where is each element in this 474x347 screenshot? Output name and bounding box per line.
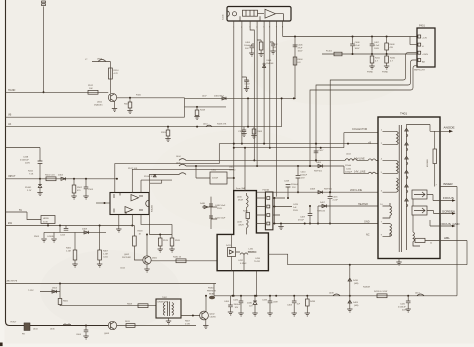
FOCUS_GND out	[430, 225, 452, 227]
svg-text:10K: 10K	[89, 88, 93, 90]
wire branch to VA	[248, 98, 282, 126]
svg-text:4.7K: 4.7K	[114, 73, 119, 75]
wire C406 branch	[294, 37, 296, 99]
svg-text:C418: C418	[284, 181, 290, 183]
internal resistor	[433, 149, 437, 164]
inductor L404	[345, 159, 357, 161]
wire Q501 collector	[117, 97, 185, 99]
resistor R605	[59, 284, 61, 299]
resistor R608	[138, 304, 148, 308]
diode D410	[349, 265, 351, 296]
svg-text:C416: C416	[333, 197, 339, 199]
svg-text:JR08: JR08	[97, 59, 103, 61]
zener ZD401	[39, 179, 41, 185]
resistor R410 + ground	[386, 54, 388, 56]
wire pin3 jog + capacitor C404	[250, 25, 254, 161]
svg-text:48uH: 48uH	[238, 200, 243, 202]
svg-text:R514: R514	[114, 70, 120, 72]
transistor Q603	[108, 321, 116, 329]
capacitor C403	[293, 296, 295, 301]
ferrite bead FB601	[24, 323, 30, 331]
diode D406	[318, 164, 323, 167]
svg-text:R404: R404	[298, 59, 304, 61]
bottom-left corner mark	[0, 343, 3, 347]
resistor R518	[133, 226, 135, 237]
wire 14V rail	[186, 159, 345, 161]
svg-text:EW: EW	[8, 222, 13, 225]
svg-text:Q501: Q501	[97, 102, 103, 104]
svg-text:R438: R438	[310, 301, 316, 303]
svg-text:C440 56uF: C440 56uF	[215, 205, 226, 207]
svg-text:Q602: Q602	[124, 254, 130, 256]
svg-text:C419: C419	[293, 204, 299, 206]
svg-text:D409: D409	[353, 302, 359, 304]
svg-text:.0039: .0039	[273, 302, 279, 304]
svg-text:R324: R324	[161, 132, 167, 134]
resistor R404	[293, 57, 297, 65]
svg-text:R519: R519	[163, 240, 169, 242]
wire VB riser	[184, 98, 186, 117]
svg-text:HOUT: HOUT	[11, 322, 18, 324]
svg-text:ABL/SH.FB: ABL/SH.FB	[7, 280, 18, 283]
svg-text:TVR10G: TVR10G	[317, 211, 325, 213]
svg-text:250V: 250V	[293, 210, 298, 212]
resistor R406 + ground	[99, 226, 101, 251]
svg-text:0.1uF: 0.1uF	[355, 45, 361, 47]
secondary diode chain	[406, 128, 408, 250]
wire pin5 long + diode D401	[263, 25, 265, 144]
ground Q402 emitter	[205, 320, 207, 326]
svg-text:C411: C411	[103, 257, 109, 259]
svg-text:C410: C410	[301, 172, 307, 174]
wire 14V rail2	[186, 166, 378, 174]
svg-text:RGP10J: RGP10J	[314, 171, 322, 173]
svg-text:0.1uF: 0.1uF	[374, 45, 380, 47]
svg-text:14V-LINE: 14V-LINE	[354, 157, 365, 160]
svg-text:R408: R408	[390, 44, 396, 46]
svg-text:C413: C413	[60, 235, 66, 237]
wire EW rail	[6, 225, 135, 227]
svg-text:R440 1K: R440 1K	[173, 257, 182, 259]
svg-text:R605: R605	[63, 301, 69, 303]
svg-text:+B: +B	[368, 142, 371, 145]
svg-text:D408: D408	[82, 229, 88, 231]
svg-text:0.022: 0.022	[245, 84, 251, 86]
wire P401 pin2 stub	[410, 37, 418, 45]
diode D604	[40, 291, 60, 293]
bottom winding	[413, 232, 420, 246]
svg-text:5L3K: 5L3K	[43, 222, 48, 224]
pin stubs and numbers	[234, 21, 283, 25]
wire T402 to Q402	[181, 315, 200, 317]
resistor R411 + ground	[371, 53, 373, 55]
svg-text:470uF: 470uF	[298, 220, 305, 222]
wire HEATER rail	[318, 206, 378, 224]
svg-text:F006: F006	[136, 95, 142, 97]
svg-text:D440: D440	[200, 203, 206, 205]
diode D411	[228, 248, 236, 257]
svg-text:HR5B: HR5B	[43, 218, 49, 220]
resistor R514	[109, 68, 113, 79]
wire sub-run	[185, 106, 227, 108]
resistor R438	[306, 296, 308, 299]
svg-text:200V-LINE: 200V-LINE	[350, 189, 362, 192]
capacitor C416	[329, 192, 331, 223]
svg-text:FOCUS: FOCUS	[443, 196, 454, 200]
wire P401 drop 3	[310, 66, 418, 166]
svg-text:120uH: 120uH	[345, 165, 352, 167]
wire step to B+ sense	[268, 254, 467, 265]
wire P403A stubs right	[273, 198, 292, 224]
wire +B rail	[219, 143, 378, 145]
svg-text:D411: D411	[226, 245, 232, 247]
wire opamp bottom pins	[118, 215, 120, 230]
svg-text:C503: C503	[88, 189, 94, 191]
svg-text:R512: R512	[88, 85, 94, 87]
resistor R611	[126, 324, 135, 328]
svg-text:2200uF: 2200uF	[300, 175, 308, 177]
svg-text:0.39uF: 0.39uF	[240, 263, 247, 265]
svg-text:C604: C604	[76, 334, 82, 336]
wire net1 (to bundle)	[115, 164, 220, 193]
svg-text:50V: 50V	[246, 87, 250, 89]
capacitor C410	[297, 166, 299, 192]
wire opamp left input	[96, 202, 110, 204]
svg-text:C406: C406	[298, 45, 304, 47]
svg-text:D605: D605	[152, 258, 158, 260]
wire HOUT continue	[117, 325, 196, 327]
wire ABL bottom rail	[214, 295, 457, 297]
svg-text:2SA1015: 2SA1015	[94, 104, 103, 107]
svg-text:C41B: C41B	[23, 157, 29, 159]
svg-text:2.2uF: 2.2uF	[333, 200, 339, 202]
svg-text:R501 5.1K: R501 5.1K	[45, 175, 55, 177]
transistor Q501	[108, 93, 116, 101]
wire net2 (to bundle)	[132, 169, 234, 192]
svg-text:ZD401: ZD401	[25, 187, 32, 189]
svg-text:100V: 100V	[374, 48, 379, 50]
svg-text:50V: 50V	[245, 48, 249, 50]
svg-text:PGND: PGND	[382, 72, 389, 74]
svg-text:C441 56uF: C441 56uF	[215, 218, 226, 220]
wire pin1	[233, 25, 235, 191]
svg-text:T-12V: T-12V	[28, 290, 34, 292]
wire H line to P401	[322, 53, 418, 55]
pin stubs inside	[383, 131, 397, 236]
FOCUS out	[427, 195, 452, 201]
svg-text:SMPS-CRT: SMPS-CRT	[414, 70, 426, 72]
diode D408b	[318, 191, 323, 194]
svg-text:12V: 12V	[249, 306, 253, 308]
svg-text:COLLECTOR: COLLECTOR	[352, 128, 367, 131]
core	[399, 125, 401, 252]
wire HB rail	[6, 178, 117, 180]
wire D405 run	[185, 97, 297, 99]
SCREEN out	[427, 211, 452, 214]
svg-text:R418: R418	[200, 110, 206, 112]
svg-text:R440M: R440M	[363, 287, 370, 289]
svg-text:200uH: 200uH	[212, 178, 219, 180]
svg-text:D410: D410	[353, 280, 359, 282]
svg-text:100V: 100V	[298, 51, 303, 53]
svg-text:C426: C426	[233, 300, 239, 302]
svg-text:PGND: PGND	[367, 72, 374, 74]
svg-text:C410B: C410B	[47, 236, 54, 238]
svg-text:400uH: 400uH	[248, 252, 255, 254]
wire pin7 long	[276, 25, 278, 197]
svg-text:C415: C415	[346, 169, 352, 171]
svg-text:D407: D407	[320, 202, 326, 204]
wire pin8 to P401 feed	[283, 25, 418, 37]
diode D404	[61, 177, 66, 180]
regulator HR5B box	[41, 216, 55, 224]
svg-text:+200V: +200V	[422, 54, 429, 56]
svg-text:T401: T401	[400, 112, 407, 116]
connector stub top (x=43)	[42, 1, 46, 3]
svg-text:ABL: ABL	[444, 236, 450, 240]
wire INNER drop	[456, 187, 458, 296]
resistor R512	[88, 90, 98, 94]
svg-text:C432: C432	[238, 260, 244, 262]
svg-text:HGND: HGND	[8, 89, 16, 92]
svg-text:R328 47K: R328 47K	[217, 124, 227, 126]
diode D440	[202, 206, 211, 208]
zener D430	[254, 296, 256, 301]
svg-text:D406: D406	[316, 162, 322, 164]
svg-text:25V: 25V	[301, 178, 305, 180]
svg-text:+14V: +14V	[422, 38, 428, 40]
svg-text:FL401: FL401	[326, 51, 333, 53]
svg-text:SCREEN: SCREEN	[442, 209, 455, 213]
capacitor C407	[371, 36, 373, 38]
svg-text:0.0056uF: 0.0056uF	[20, 160, 30, 162]
svg-text:200V: 200V	[25, 163, 30, 165]
ground T402	[168, 318, 170, 321]
svg-text:VB: VB	[8, 114, 12, 117]
svg-text:100uF: 100uF	[244, 45, 251, 47]
resistor R520 + ground	[171, 235, 173, 239]
svg-text:ANODE: ANODE	[444, 126, 455, 130]
ground Q602 emitter	[146, 264, 148, 269]
capacitor C604	[85, 325, 87, 327]
svg-text:400V: 400V	[402, 310, 407, 312]
capacitor C413	[65, 226, 67, 229]
svg-text:C402: C402	[273, 44, 279, 46]
capacitor C426	[240, 296, 242, 301]
wire net3 riser	[149, 175, 179, 235]
capacitor C502	[85, 179, 87, 187]
resistor R519 + ground	[159, 235, 161, 239]
svg-text:D401: D401	[267, 60, 273, 62]
capacitor C394	[243, 127, 245, 130]
svg-text:R507: R507	[124, 104, 130, 106]
wire from top connector down	[43, 6, 45, 92]
resistor R418	[196, 107, 198, 110]
capacitor C433	[269, 296, 271, 301]
svg-text:D604: D604	[52, 288, 58, 290]
resistor R405 + ground	[74, 232, 76, 250]
svg-text:D402: D402	[229, 167, 235, 169]
svg-text:(HB): (HB)	[354, 305, 359, 307]
wire C41B top link	[6, 147, 41, 149]
svg-text:5.1V: 5.1V	[27, 190, 32, 192]
svg-text:47uF: 47uF	[298, 48, 303, 50]
svg-text:1000pF: 1000pF	[345, 172, 353, 174]
svg-text:R502: R502	[77, 187, 83, 189]
svg-text:R608: R608	[127, 304, 133, 306]
ground on GND rail	[280, 224, 282, 227]
svg-text:HEATER: HEATER	[358, 203, 368, 206]
wire EW sub-run	[44, 226, 106, 233]
capacitor C440	[211, 197, 217, 229]
inductor L402	[210, 172, 227, 184]
resistor R440 run to center	[151, 260, 217, 262]
transistor Q402	[200, 311, 209, 320]
diode D408	[84, 231, 89, 234]
svg-text:C6090: C6090	[210, 317, 217, 319]
svg-text:100V: 100V	[355, 48, 360, 50]
svg-text:R410: R410	[390, 58, 396, 60]
transistor Q602	[143, 256, 151, 264]
svg-text:C612: C612	[120, 268, 126, 270]
resistor R408	[386, 36, 388, 38]
diode D407	[322, 204, 327, 207]
wire ABL drop	[466, 241, 468, 265]
diode D409	[349, 296, 351, 309]
svg-text:C405: C405	[245, 81, 251, 83]
svg-text:R405: R405	[66, 248, 72, 250]
wire pin2 + capacitor C405	[241, 25, 243, 144]
svg-text:(HB): (HB)	[354, 283, 359, 285]
resistor R501	[46, 177, 56, 181]
svg-text:P403A: P403A	[263, 189, 270, 192]
svg-text:NC: NC	[366, 233, 370, 236]
wire net4 (notch side)	[141, 180, 172, 192]
svg-text:C409: C409	[300, 217, 306, 219]
svg-text:Q603: Q603	[104, 333, 110, 335]
inductor L601	[63, 324, 71, 326]
svg-text:P401: P401	[419, 25, 425, 28]
wire GND rail	[274, 223, 378, 225]
svg-text:C407: C407	[374, 42, 380, 44]
wire jumper run	[92, 62, 110, 94]
wire foot bottom drops	[234, 271, 257, 296]
svg-text:C433: C433	[262, 300, 268, 302]
thick trace (pattern)	[217, 191, 268, 271]
svg-text:C394: C394	[238, 131, 244, 133]
ground	[194, 117, 199, 120]
heater winding	[383, 203, 392, 218]
ground (Q501 emitter)	[114, 102, 116, 109]
svg-text:2SC2482: 2SC2482	[122, 257, 132, 259]
op-amp U401 (IC box top)	[227, 7, 291, 22]
svg-text:R520: R520	[175, 240, 181, 242]
wire 200V rail	[256, 191, 378, 193]
primary winding arcs	[397, 131, 399, 144]
svg-text:RGP10J: RGP10J	[324, 189, 332, 191]
svg-text:D430: D430	[247, 303, 253, 305]
svg-text:.68uH: .68uH	[238, 225, 244, 227]
svg-text:IC401: IC401	[223, 14, 225, 20]
capacitor C41B branch	[39, 148, 41, 179]
focus pot	[412, 190, 427, 199]
svg-text:0.056uF: 0.056uF	[398, 307, 406, 309]
resistor R308	[253, 127, 255, 129]
svg-text:MX0809: MX0809	[427, 158, 429, 167]
op-amp IC402 (KIA358)	[110, 193, 149, 215]
svg-text:C408: C408	[355, 42, 361, 44]
wire rail2	[234, 147, 344, 149]
ANODE out	[407, 125, 450, 132]
wire COLLECTOR	[344, 133, 378, 148]
screen pot	[412, 206, 427, 215]
wire P403A stubs left	[256, 198, 265, 224]
svg-text:C420: C420	[400, 304, 406, 306]
svg-text:7.5K: 7.5K	[29, 174, 34, 176]
wire 12V run	[60, 305, 156, 307]
svg-text:C434: C434	[255, 258, 261, 260]
wire Q402 collector	[205, 296, 207, 312]
svg-text:R411: R411	[375, 58, 381, 60]
svg-text:25V: 25V	[292, 187, 296, 189]
svg-text:INPUT: INPUT	[8, 175, 16, 178]
svg-text:3mm 30A: 3mm 30A	[236, 187, 246, 190]
svg-text:R503: R503	[34, 236, 40, 238]
wire ABL rail	[6, 283, 217, 285]
capacitor C418	[287, 187, 289, 198]
svg-text:TL431: TL431	[254, 261, 261, 263]
svg-text:C403: C403	[287, 305, 293, 307]
svg-text:Q402: Q402	[210, 314, 216, 316]
svg-text:R308: R308	[257, 131, 263, 133]
svg-text:INNER: INNER	[443, 182, 453, 186]
wire pin4 + resistor R402	[256, 25, 258, 167]
svg-text:C404: C404	[245, 42, 251, 44]
svg-text:R611: R611	[125, 321, 131, 323]
svg-text:250V: 250V	[217, 208, 222, 210]
svg-text:1.2M: 1.2M	[103, 254, 108, 256]
svg-text:SB560: SB560	[229, 170, 236, 172]
svg-text:R518: R518	[138, 231, 144, 233]
wire collector riser	[244, 148, 246, 191]
wire page-edge bus (left border)	[6, 0, 10, 326]
svg-text:16V: 16V	[235, 307, 239, 309]
svg-text:D404: D404	[58, 175, 64, 177]
svg-text:R413 6L 1/2W: R413 6L 1/2W	[374, 291, 387, 293]
svg-text:VA: VA	[8, 123, 11, 126]
svg-text:R407: R407	[103, 251, 109, 253]
ground GND pin	[398, 259, 400, 263]
svg-text:GND: GND	[364, 221, 370, 224]
svg-text:3300uF: 3300uF	[234, 304, 242, 306]
svg-text:KIA358: KIA358	[151, 204, 154, 212]
svg-text:1.2M: 1.2M	[66, 251, 71, 253]
capacitor C406b	[230, 296, 232, 305]
svg-text:R412: R412	[28, 171, 34, 173]
svg-text:FERRITE: FERRITE	[207, 290, 217, 292]
svg-text:R607: R607	[185, 321, 191, 323]
resistor R502	[73, 179, 75, 185]
diode D405	[222, 97, 226, 100]
capacitor C420	[407, 296, 409, 301]
wire net cluster (from net3)	[149, 234, 172, 236]
wire pin6 + capacitor C402	[269, 25, 271, 148]
wire P401 drop 1	[330, 53, 418, 193]
svg-text:R517 10K: R517 10K	[128, 168, 138, 170]
capacitor C408	[352, 36, 354, 38]
resistor R413	[377, 294, 387, 298]
svg-text:C417: C417	[319, 150, 325, 152]
